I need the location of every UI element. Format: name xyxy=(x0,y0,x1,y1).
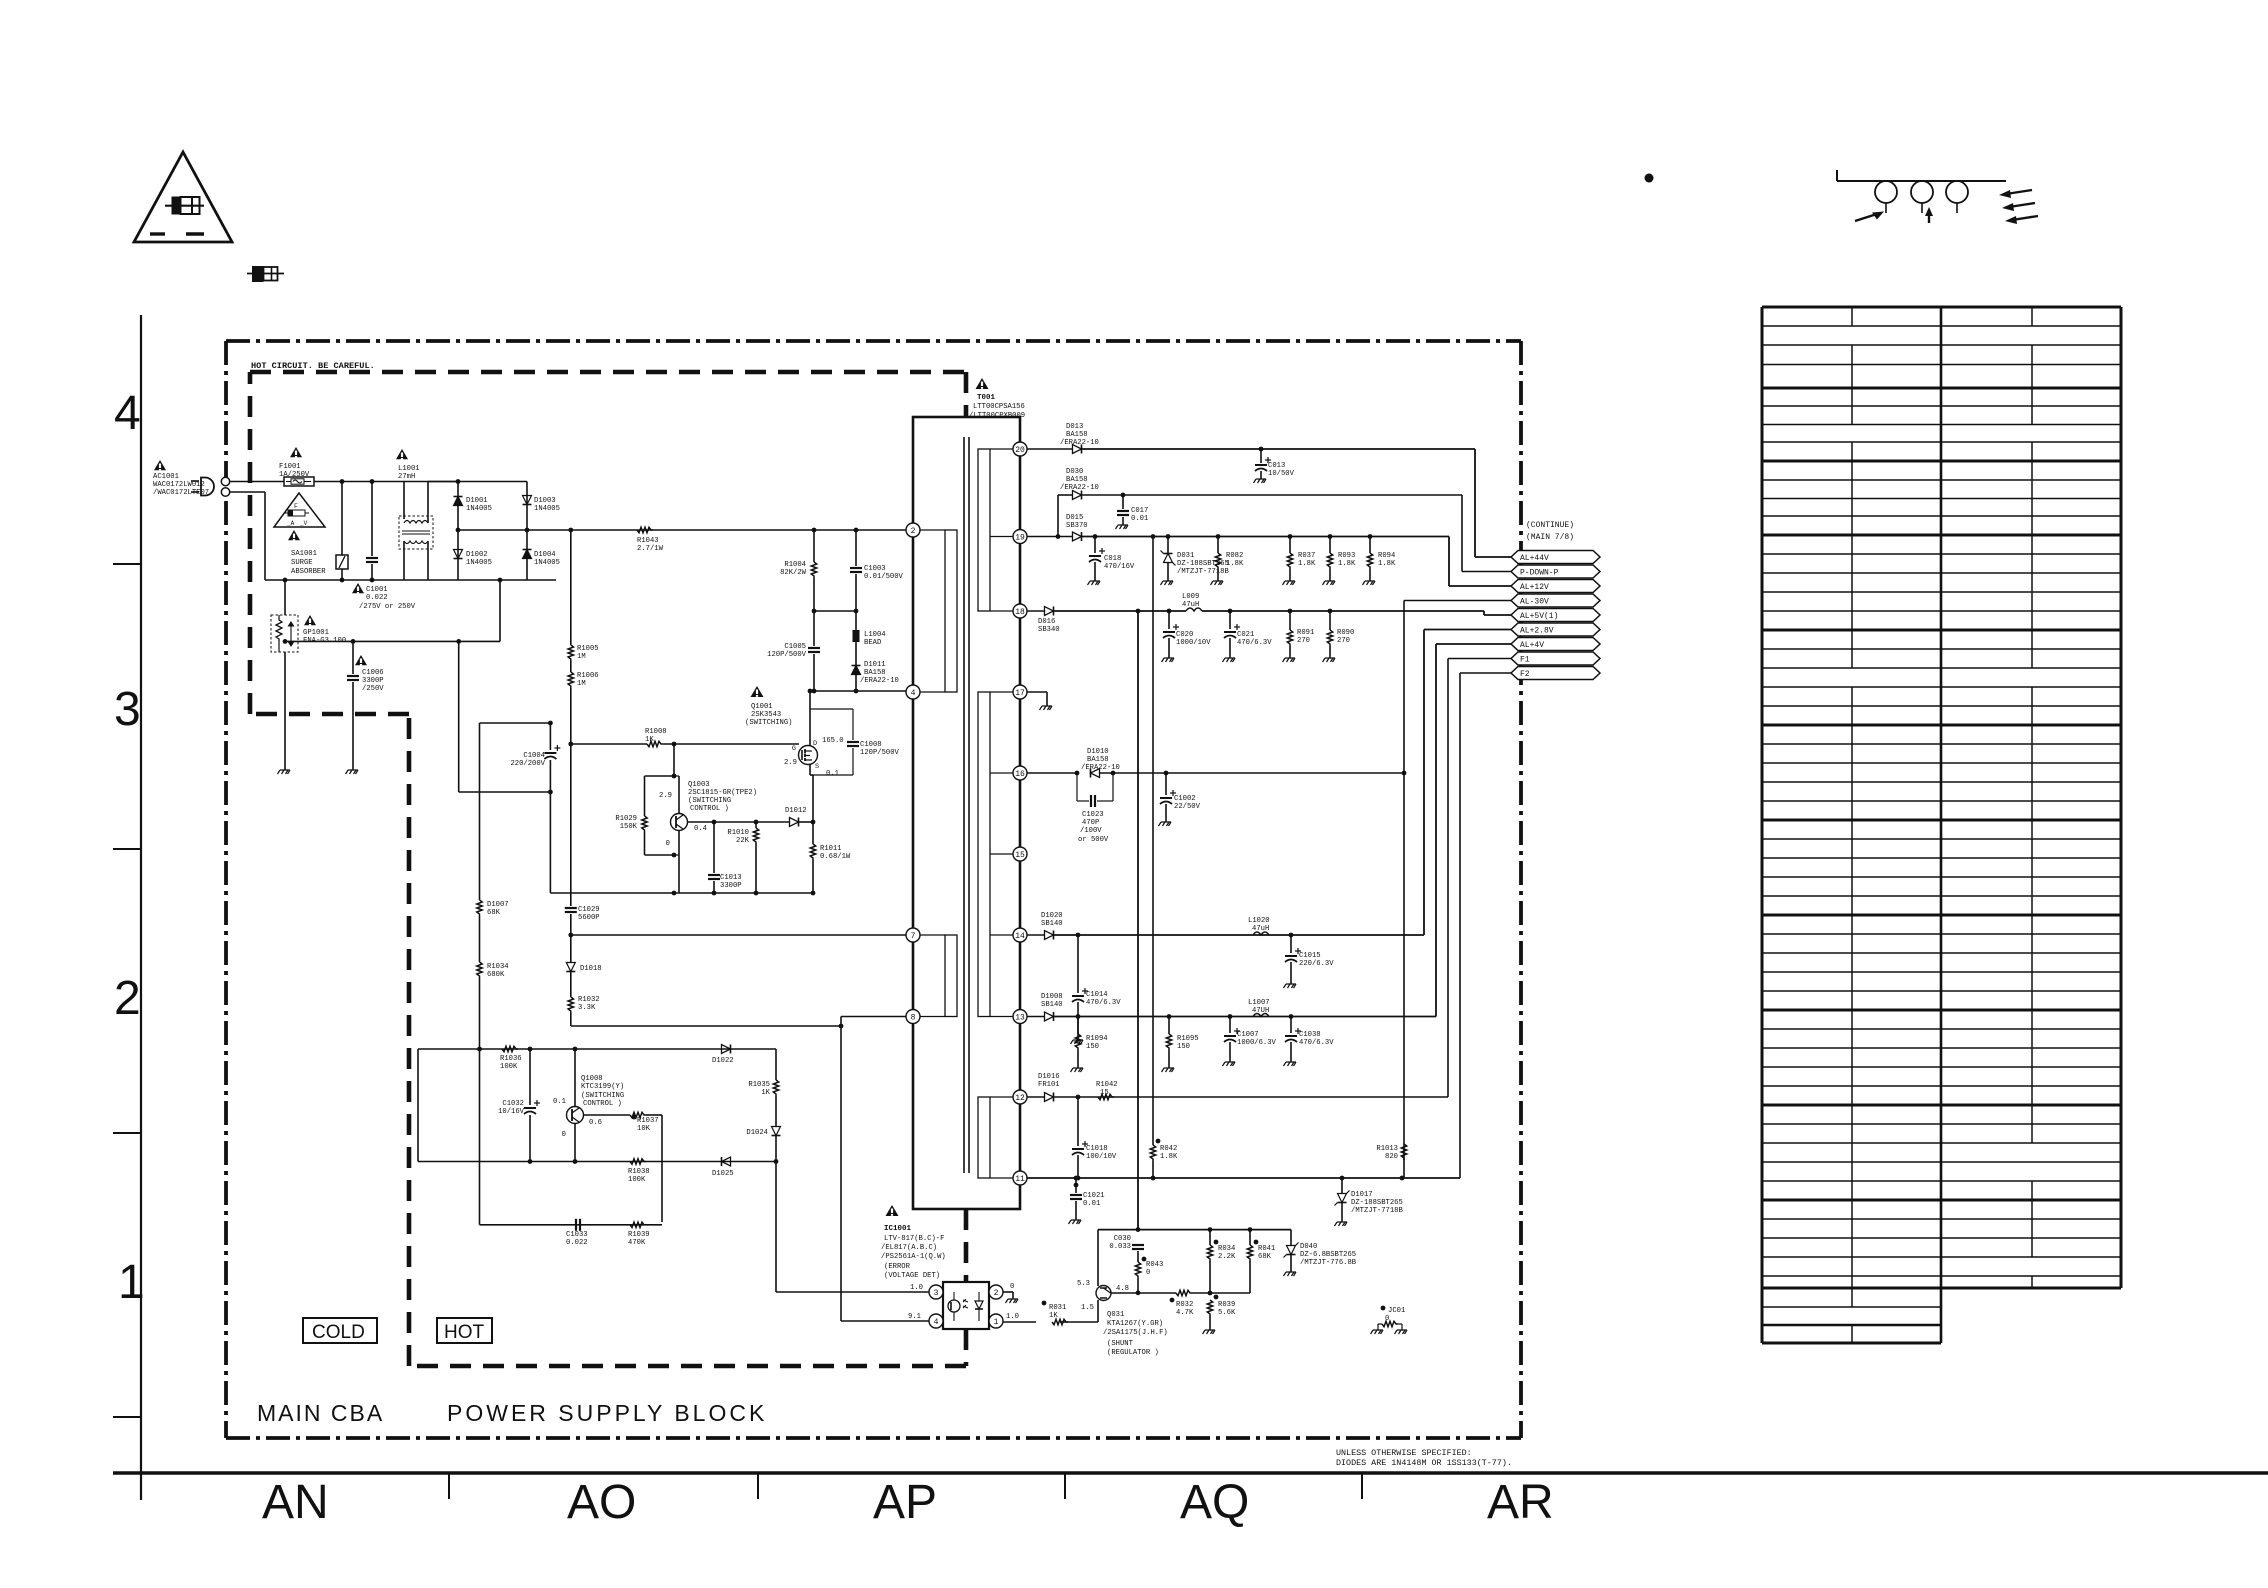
svg-text:AL+5V(1): AL+5V(1) xyxy=(1520,612,1558,621)
IC1001 labels xyxy=(886,1205,899,1216)
arrow to circle1 xyxy=(1855,213,1880,221)
svg-text:120P/500V: 120P/500V xyxy=(860,749,900,757)
MAIN CBA dash-dot border box xyxy=(226,339,1521,343)
svg-text:14: 14 xyxy=(1015,932,1025,941)
svg-text:470/6.3V: 470/6.3V xyxy=(1086,999,1121,1007)
diode D013 xyxy=(1073,445,1082,454)
resistor R034 xyxy=(1209,1230,1211,1245)
svg-text:820: 820 xyxy=(1385,1153,1398,1161)
opto pin 2 xyxy=(989,1285,1003,1299)
left winding bar pins7-8 xyxy=(945,935,957,1017)
aux return to opto pin4 xyxy=(840,1026,842,1321)
svg-text:20: 20 xyxy=(1015,446,1025,455)
svg-text:R043: R043 xyxy=(1146,1261,1163,1269)
diode D1025 xyxy=(722,1157,731,1166)
svg-text:R031: R031 xyxy=(1049,1304,1066,1312)
wire to F1 tag xyxy=(1447,659,1449,1098)
resistor R1008 xyxy=(647,741,663,746)
svg-text:SB370: SB370 xyxy=(1066,522,1088,530)
capacitor C1003 xyxy=(855,530,857,566)
svg-text:150: 150 xyxy=(1086,1043,1099,1051)
AC1001 labels xyxy=(154,460,166,470)
tag F1 xyxy=(1511,652,1600,665)
pin7 wire xyxy=(571,934,906,936)
svg-text:0.01: 0.01 xyxy=(1083,1200,1100,1208)
svg-text:1A/250V: 1A/250V xyxy=(279,471,310,479)
R1035 / D1024 chain xyxy=(775,1049,777,1080)
svg-text:R034: R034 xyxy=(1218,1245,1235,1253)
source wire xyxy=(809,764,811,775)
svg-text:/2SA1175(J.H.F): /2SA1175(J.H.F) xyxy=(1103,1329,1168,1337)
svg-text:C1005: C1005 xyxy=(784,643,806,651)
transformer T001 outline xyxy=(913,417,1020,1209)
B+ rail bridge to pin2 xyxy=(458,529,906,531)
svg-text:0: 0 xyxy=(1010,1283,1014,1291)
svg-text:F: F xyxy=(294,503,298,510)
svg-text:R1037: R1037 xyxy=(637,1117,659,1125)
svg-text:4.8: 4.8 xyxy=(1116,1285,1129,1293)
svg-text:4: 4 xyxy=(114,387,141,440)
svg-text:C1006: C1006 xyxy=(362,669,384,677)
neutral wire from plug xyxy=(230,491,265,493)
svg-text:AL+12V: AL+12V xyxy=(1520,583,1549,592)
base wire with D1012 xyxy=(688,821,790,823)
svg-text:CONTROL ): CONTROL ) xyxy=(690,805,729,813)
svg-text:or 500V: or 500V xyxy=(1078,836,1109,844)
svg-text:AL+4V: AL+4V xyxy=(1520,641,1544,650)
resistor R043 xyxy=(1135,1262,1140,1278)
negative rail from bridge xyxy=(499,580,501,641)
svg-text:2.9: 2.9 xyxy=(659,792,672,800)
svg-text:/MTZJT-776.8B: /MTZJT-776.8B xyxy=(1300,1259,1357,1267)
svg-text:R1013: R1013 xyxy=(1376,1145,1398,1153)
zener D040 xyxy=(1290,1230,1292,1245)
svg-text:BEAD: BEAD xyxy=(864,639,881,647)
svg-text:2.2K: 2.2K xyxy=(1218,1253,1236,1261)
resistor R1039 xyxy=(630,1222,646,1227)
svg-text:(SWITCHING): (SWITCHING) xyxy=(745,719,792,727)
svg-text:27mH: 27mH xyxy=(398,473,415,481)
HOT label box xyxy=(437,1318,492,1343)
svg-text:68K: 68K xyxy=(1258,1253,1272,1261)
svg-text:R082: R082 xyxy=(1226,552,1243,560)
MOSFET Q1001 2SK3543 xyxy=(751,686,764,697)
transformer core lines xyxy=(963,437,965,1173)
resistor R1006 xyxy=(570,661,572,672)
svg-text:(ERROR: (ERROR xyxy=(884,1263,911,1271)
svg-text:5.6K: 5.6K xyxy=(1218,1309,1236,1317)
wire plug to fuse xyxy=(230,481,284,483)
svg-text:D013: D013 xyxy=(1066,423,1083,431)
svg-text:D031: D031 xyxy=(1177,552,1194,560)
svg-text:270: 270 xyxy=(1297,637,1310,645)
svg-text:AR: AR xyxy=(1487,1476,1554,1529)
svg-text:1000/6.3V: 1000/6.3V xyxy=(1237,1039,1277,1047)
svg-text:D: D xyxy=(813,740,817,748)
ground xyxy=(1254,479,1267,483)
svg-text:/275V or 250V: /275V or 250V xyxy=(359,603,416,611)
svg-text:R1042: R1042 xyxy=(1096,1081,1118,1089)
parts table top-right (empty grid) xyxy=(1762,306,2121,309)
svg-text:_A: _A xyxy=(286,520,295,527)
svg-text:1M: 1M xyxy=(577,680,586,688)
pin 4 xyxy=(906,685,920,699)
D030 branch xyxy=(1057,495,1059,537)
gate wire xyxy=(571,743,647,745)
svg-text:/WAC0172LTE07: /WAC0172LTE07 xyxy=(153,489,209,497)
left arrow 2 xyxy=(2009,203,2035,207)
svg-text:R1094: R1094 xyxy=(1086,1035,1108,1043)
svg-text:165.0: 165.0 xyxy=(822,737,844,745)
svg-text:1.8K: 1.8K xyxy=(1338,560,1356,568)
diode D1020 xyxy=(1045,931,1054,940)
diode D1004 xyxy=(526,530,528,580)
svg-text:2: 2 xyxy=(994,1289,999,1298)
svg-text:FR101: FR101 xyxy=(1038,1081,1060,1089)
right winding bar pins12-11 xyxy=(978,1097,990,1178)
svg-text:100K: 100K xyxy=(500,1063,518,1071)
resistor R041 xyxy=(1249,1230,1251,1245)
capacitor C1029 xyxy=(570,744,572,906)
svg-text:4: 4 xyxy=(911,689,916,698)
svg-text:T001: T001 xyxy=(977,394,996,402)
right winding bar pins17-13 xyxy=(978,692,990,1017)
svg-text:47uH: 47uH xyxy=(1252,925,1269,933)
capacitor C1004 xyxy=(549,723,551,750)
svg-text:3300P: 3300P xyxy=(362,677,384,685)
frame bottom border line xyxy=(113,1471,2268,1475)
capacitor C1002 xyxy=(1165,773,1167,795)
tag AL+2.8V xyxy=(1511,623,1600,636)
svg-text:HOT: HOT xyxy=(444,1322,485,1343)
svg-text:1.8K: 1.8K xyxy=(1226,560,1244,568)
zener D1017 xyxy=(1341,1178,1343,1193)
svg-text:R1036: R1036 xyxy=(500,1055,522,1063)
svg-text:R093: R093 xyxy=(1338,552,1355,560)
svg-text:AO: AO xyxy=(567,1476,636,1529)
svg-text:C1003: C1003 xyxy=(864,565,886,573)
svg-text:D1012: D1012 xyxy=(785,807,807,815)
svg-text:/ERA22-10: /ERA22-10 xyxy=(860,677,899,685)
svg-text:/ERA22-10: /ERA22-10 xyxy=(1060,439,1099,447)
svg-text:D1011: D1011 xyxy=(864,661,886,669)
svg-text:0: 0 xyxy=(562,1131,566,1139)
svg-text:AL+2.8V: AL+2.8V xyxy=(1520,627,1554,636)
svg-text:HOT CIRCUIT. BE CAREFUL.: HOT CIRCUIT. BE CAREFUL. xyxy=(251,361,375,371)
opto pin 4 xyxy=(929,1314,943,1328)
capacitor C030 xyxy=(1132,1244,1144,1246)
capacitor C1015 xyxy=(1290,935,1292,953)
diode D015 xyxy=(1073,532,1082,541)
5V sense vertical xyxy=(1137,611,1139,1230)
svg-text:R1035: R1035 xyxy=(748,1081,770,1089)
wire 1161 rail xyxy=(418,1161,776,1163)
svg-text:/ERA22-10: /ERA22-10 xyxy=(1060,484,1099,492)
capacitor C1021 xyxy=(1075,1178,1077,1193)
diode D1022 xyxy=(722,1045,731,1054)
top-left warning triangle with fuse icon xyxy=(134,152,232,242)
svg-text:68K: 68K xyxy=(487,909,501,917)
svg-text:1N4005: 1N4005 xyxy=(534,505,560,513)
choke L1001 xyxy=(396,449,408,459)
svg-text:4: 4 xyxy=(934,1318,939,1327)
up arrow under circle2 xyxy=(1928,213,1930,223)
bridge top wire xyxy=(458,481,527,483)
capacitor C1018 xyxy=(1077,1097,1079,1146)
opto feedback vertical xyxy=(775,1162,777,1293)
svg-text:3.3K: 3.3K xyxy=(578,1004,596,1012)
phototransistor xyxy=(948,1300,960,1312)
pin13 wire xyxy=(1027,1016,1044,1018)
svg-text:R041: R041 xyxy=(1258,1245,1275,1253)
capacitor C1005 xyxy=(813,611,815,646)
resistor R042 xyxy=(1152,537,1154,1146)
svg-text:R032: R032 xyxy=(1176,1301,1193,1309)
svg-text:C1018: C1018 xyxy=(1086,1145,1108,1153)
svg-text:AL+44V: AL+44V xyxy=(1520,554,1549,563)
svg-text:8: 8 xyxy=(911,1013,916,1022)
svg-text:C030: C030 xyxy=(1114,1235,1131,1243)
frame left ticks xyxy=(113,563,141,565)
R082 xyxy=(1217,537,1219,554)
pin 14 xyxy=(1013,928,1027,942)
svg-text:7: 7 xyxy=(911,932,916,941)
svg-text:Q1001: Q1001 xyxy=(751,703,773,711)
svg-text:P-DOWN-P: P-DOWN-P xyxy=(1520,569,1559,578)
resistor R1043 xyxy=(637,527,653,532)
ground xyxy=(1088,581,1101,585)
diode D016 xyxy=(1045,607,1054,616)
svg-text:/PS2561A-1(Q.W): /PS2561A-1(Q.W) xyxy=(881,1253,946,1261)
inductor L1004 bead xyxy=(855,611,857,630)
ground xyxy=(278,770,291,774)
svg-text:C1029: C1029 xyxy=(578,906,600,914)
svg-text:470P: 470P xyxy=(1082,819,1099,827)
svg-text:C1002: C1002 xyxy=(1174,795,1196,803)
svg-text:15: 15 xyxy=(1100,1089,1109,1097)
tag AL+4V xyxy=(1511,638,1600,651)
svg-text:/MTZJT-7718B: /MTZJT-7718B xyxy=(1177,568,1229,576)
svg-text:1: 1 xyxy=(118,1256,145,1309)
svg-text:D1018: D1018 xyxy=(580,965,602,973)
capacitor C1038 xyxy=(1290,1017,1292,1034)
resistor R032 xyxy=(1176,1290,1192,1295)
inductor L1020 xyxy=(1253,932,1269,935)
svg-text:BA158: BA158 xyxy=(1066,431,1088,439)
svg-text:D1008: D1008 xyxy=(1041,993,1063,1001)
pin 2 xyxy=(906,523,920,537)
svg-text:D1001: D1001 xyxy=(466,497,488,505)
svg-text:IC1001: IC1001 xyxy=(884,1225,912,1233)
svg-text:AP: AP xyxy=(873,1476,937,1529)
svg-text:GP1001: GP1001 xyxy=(303,629,329,637)
HOT CIRCUIT dashed border xyxy=(250,370,966,375)
svg-text:WAC0172LW012: WAC0172LW012 xyxy=(153,481,205,489)
svg-text:17: 17 xyxy=(1015,689,1025,698)
winding stubs right xyxy=(990,448,1013,450)
wire to F2 tag xyxy=(1459,673,1461,1178)
tag AL+5V(1) xyxy=(1511,609,1600,622)
svg-text:SURGE: SURGE xyxy=(291,559,313,567)
svg-text:1M: 1M xyxy=(577,653,586,661)
svg-text:15: 15 xyxy=(1015,851,1025,860)
svg-text:9.1: 9.1 xyxy=(908,1313,921,1321)
svg-text:L1007: L1007 xyxy=(1248,999,1270,1007)
svg-text:(SWITCHING: (SWITCHING xyxy=(581,1092,624,1100)
capacitor C1006 xyxy=(352,641,354,674)
C1004 box top xyxy=(480,722,551,724)
svg-text:1.0: 1.0 xyxy=(910,1284,923,1292)
svg-text:SA1001: SA1001 xyxy=(291,550,317,558)
svg-text:0.022: 0.022 xyxy=(366,594,388,602)
ground xyxy=(346,770,359,774)
svg-text:R094: R094 xyxy=(1378,552,1395,560)
svg-text:Q1003: Q1003 xyxy=(688,781,710,789)
frame left border line xyxy=(140,315,142,1500)
resistor R031 xyxy=(1052,1319,1068,1324)
svg-text:C013: C013 xyxy=(1268,462,1285,470)
svg-text:D015: D015 xyxy=(1066,514,1083,522)
capacitor C021 xyxy=(1229,611,1231,629)
svg-text:2.7/1W: 2.7/1W xyxy=(637,545,664,553)
svg-text:1: 1 xyxy=(994,1318,999,1327)
R094 xyxy=(1369,537,1371,554)
svg-text:BA158: BA158 xyxy=(864,669,886,677)
svg-text:470/6.3V: 470/6.3V xyxy=(1299,1039,1334,1047)
svg-text:AQ: AQ xyxy=(1180,1476,1249,1529)
svg-text:D1020: D1020 xyxy=(1041,912,1063,920)
svg-text:LTT00CPSA156: LTT00CPSA156 xyxy=(973,403,1025,411)
svg-text:4.7K: 4.7K xyxy=(1176,1309,1194,1317)
svg-text:C1015: C1015 xyxy=(1299,952,1321,960)
svg-text:R1039: R1039 xyxy=(628,1231,650,1239)
opto pin2 ground xyxy=(1003,1291,1013,1293)
svg-text:(REGULATOR ): (REGULATOR ) xyxy=(1107,1349,1159,1357)
svg-text:1K: 1K xyxy=(761,1089,770,1097)
svg-text:R090: R090 xyxy=(1337,629,1354,637)
svg-text:3: 3 xyxy=(114,683,141,736)
svg-text:D1010: D1010 xyxy=(1087,748,1109,756)
svg-text:47UH: 47UH xyxy=(1252,1007,1269,1015)
svg-text:DIODES ARE 1N4148M OR 1SS133(T: DIODES ARE 1N4148M OR 1SS133(T-77). xyxy=(1336,1458,1512,1468)
svg-text:R1011: R1011 xyxy=(820,845,842,853)
svg-text:R039: R039 xyxy=(1218,1301,1235,1309)
svg-text:R1010: R1010 xyxy=(727,829,749,837)
choke to bridge wires xyxy=(427,482,429,524)
svg-text:R1029: R1029 xyxy=(615,815,637,823)
source sense chain R1011 xyxy=(812,775,814,844)
svg-text:COLD: COLD xyxy=(312,1322,365,1343)
svg-text:1.8K: 1.8K xyxy=(1378,560,1396,568)
svg-text:19: 19 xyxy=(1015,533,1025,542)
ground xyxy=(1161,581,1174,585)
pin 15 xyxy=(1013,847,1027,861)
diode D1012 xyxy=(790,818,799,827)
pin14 wire xyxy=(1027,934,1044,936)
svg-text:C1023: C1023 xyxy=(1082,811,1104,819)
svg-text:10K: 10K xyxy=(637,1125,651,1133)
svg-text:C1001: C1001 xyxy=(366,586,388,594)
svg-text:1000/10V: 1000/10V xyxy=(1176,639,1211,647)
svg-text:220/200V: 220/200V xyxy=(510,760,545,768)
diode D1003 xyxy=(526,482,528,531)
svg-text:0.01/500V: 0.01/500V xyxy=(864,573,904,581)
AC plug AC1001 xyxy=(201,478,214,496)
svg-text:D1016: D1016 xyxy=(1038,1073,1060,1081)
top-right circle 1 xyxy=(1875,181,1897,203)
R090 xyxy=(1329,611,1331,630)
svg-text:3300P: 3300P xyxy=(720,882,742,890)
svg-text:R1005: R1005 xyxy=(577,645,599,653)
pin 18 xyxy=(1013,604,1027,618)
svg-text:220/6.3V: 220/6.3V xyxy=(1299,960,1334,968)
tag P-DOWN-P xyxy=(1511,565,1600,578)
svg-text:470/6.3V: 470/6.3V xyxy=(1237,639,1272,647)
svg-text:C1038: C1038 xyxy=(1299,1031,1321,1039)
svg-text:0.01: 0.01 xyxy=(1131,515,1148,523)
pin 7 xyxy=(906,928,920,942)
pin 19 xyxy=(1013,530,1027,544)
svg-text:1N4005: 1N4005 xyxy=(534,559,560,567)
resistor R1004 xyxy=(813,530,815,562)
svg-text:0.6: 0.6 xyxy=(589,1119,602,1127)
wire 1230 rail xyxy=(1098,1229,1291,1231)
svg-text:F1: F1 xyxy=(1520,656,1530,665)
svg-text:1N4005: 1N4005 xyxy=(466,505,492,513)
svg-text:MAIN CBA: MAIN CBA xyxy=(257,1400,384,1426)
capacitor C1014 xyxy=(1077,935,1079,993)
pin 12 xyxy=(1013,1090,1027,1104)
svg-text:0.4: 0.4 xyxy=(694,825,707,833)
svg-text:UNLESS OTHERWISE SPECIFIED:: UNLESS OTHERWISE SPECIFIED: xyxy=(1336,1448,1472,1458)
svg-text:CONTROL ): CONTROL ) xyxy=(583,1100,622,1108)
svg-text:/ERA22-10: /ERA22-10 xyxy=(1081,764,1120,772)
svg-text:(CONTINUE): (CONTINUE) xyxy=(1526,521,1574,530)
svg-text:/250V: /250V xyxy=(362,685,384,693)
wire to AL+4V tag xyxy=(1435,644,1437,1017)
svg-text:SB340: SB340 xyxy=(1038,626,1060,634)
wire corner into choke xyxy=(403,482,405,520)
R1029 feedback box xyxy=(673,744,675,776)
right winding bar pins20-18 xyxy=(978,449,990,611)
svg-text:C017: C017 xyxy=(1131,507,1148,515)
svg-text:D1007: D1007 xyxy=(487,901,509,909)
AL-30V vertical xyxy=(1403,601,1405,1179)
svg-text:F1001: F1001 xyxy=(279,463,301,471)
capacitor C018 xyxy=(1094,537,1096,554)
SA1001 surge absorber triangle symbol xyxy=(274,493,325,527)
top-right connector symbol: corner line xyxy=(1836,170,1838,181)
svg-text:1.0: 1.0 xyxy=(1006,1313,1019,1321)
capacitor C013 xyxy=(1260,449,1262,463)
left winding bar pins2-4 xyxy=(945,530,957,692)
svg-text:1N4005: 1N4005 xyxy=(466,559,492,567)
inductor L009 xyxy=(1186,608,1202,611)
capacitor C1033 xyxy=(575,1219,577,1231)
svg-text:L1004: L1004 xyxy=(864,631,886,639)
svg-text:1.5: 1.5 xyxy=(1081,1304,1094,1312)
tag AL+44V xyxy=(1511,551,1600,564)
diode D1001 xyxy=(457,482,459,531)
top-right reference dot xyxy=(1645,174,1654,183)
wire to AL+12V tag xyxy=(1448,537,1450,587)
svg-text:1K: 1K xyxy=(1049,1312,1058,1320)
svg-text:/EL817(A.B.C): /EL817(A.B.C) xyxy=(881,1244,937,1252)
discharge resistor GP1001 xyxy=(284,580,286,615)
resistor R1005 xyxy=(570,530,572,645)
svg-text:R037: R037 xyxy=(1298,552,1315,560)
resistor R1042 xyxy=(1098,1094,1114,1099)
